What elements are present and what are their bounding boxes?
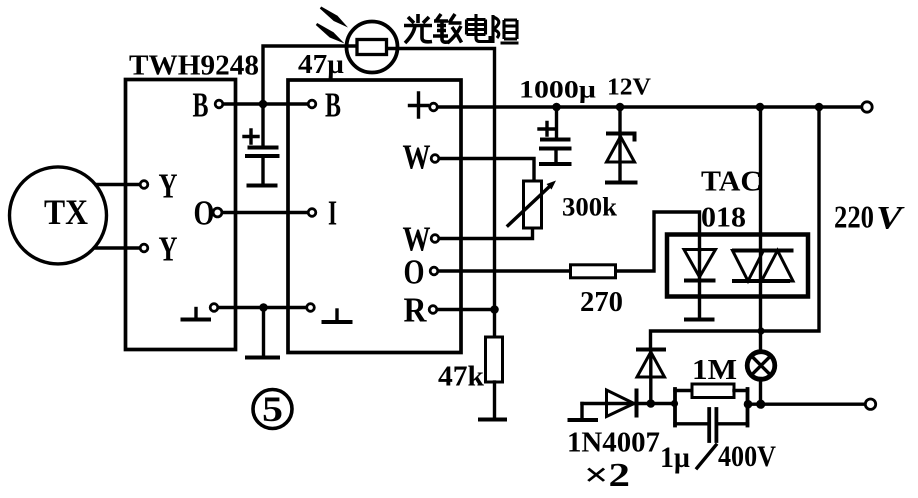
triac main vertical wire from rail to lamp [759,107,762,353]
svg-text:TX: TX [44,192,88,232]
svg-text:B: B [193,86,209,125]
svg-text:5: 5 [262,389,283,429]
node dot 220V drop [815,103,824,112]
svg-text:400V: 400V [718,440,776,473]
U1 pin B [215,100,223,108]
svg-text:1µ: 1µ [660,441,690,474]
wire TX bottom lead [96,246,140,249]
opto triac symbol [732,251,794,282]
wire photoresistor right lead down to R row [386,49,495,310]
bottom terminal circle [865,399,875,409]
capacitor C3 1u/400V [675,409,748,441]
ground lead below junction [262,308,265,355]
svg-text:018: 018 [701,203,746,234]
svg-text:Y: Y [159,167,178,206]
wire 220V drop to diode D3 top [651,107,820,348]
TX microphone circle [10,167,107,264]
svg-text:1000µ: 1000µ [519,77,596,104]
diode D3 1N4007 vertical [636,350,666,404]
plus sign [410,93,428,117]
U1 ground pin wire to U2 ground pin [218,306,307,309]
svg-text:270: 270 [580,287,623,318]
U2 pin I [308,209,316,217]
rail terminal circle [862,102,872,112]
svg-text:R: R [404,291,428,330]
junction blob at triac/lamp wire crossing [757,327,764,334]
U2 pin R wire to 47k node [437,308,494,311]
zener diode VD 12V [605,107,638,183]
U1 pin Y2 [140,244,148,252]
svg-text:300k: 300k [562,193,618,222]
resistor R3 1M [675,384,748,398]
svg-text:Y: Y [159,230,178,269]
node dot diodes join [647,399,656,408]
svg-text:47µ: 47µ [298,49,344,79]
AC line terminal bar [580,404,583,418]
svg-text:1M: 1M [692,354,737,386]
svg-text:47k: 47k [438,362,484,393]
resistor R1 270 [571,265,616,278]
circled figure number 5 [253,389,292,429]
resistor R2 47k [486,310,503,418]
lamp HL [747,352,775,405]
photoresistor RG body [357,40,387,55]
svg-text:12V: 12V [607,75,652,101]
svg-text:B: B [325,86,341,125]
U2 pin O wire through 270 to opto LED [438,212,700,271]
U2 pin plus with 12V rail wire [438,105,864,108]
svg-text:W: W [403,138,431,177]
U1 pin Y1 [140,181,148,189]
U1 GND symbol [194,309,197,318]
ground T below opto LED [684,318,715,322]
IC U1 TWH9248 box [126,80,236,350]
svg-text:220: 220 [834,199,874,235]
node dot 1000u [552,103,561,112]
ground junction dot between ICs [259,303,268,312]
U2 pin GND [307,304,315,312]
node dot triac rail [756,103,765,112]
U1 pin GND [210,304,218,312]
svg-text:I: I [328,194,337,233]
node dot at snubber left bar [671,400,678,407]
photoresistor RG circle [347,22,398,73]
svg-text:TAC: TAC [701,167,762,198]
node dot lamp bottom [756,400,765,409]
U2 pin B [308,100,316,108]
ground T symbol [245,356,280,360]
RC snubber left bar [673,389,677,426]
svg-text:O: O [404,253,425,292]
optocoupler U3 TAC018 box [667,235,808,297]
svg-text:V: V [876,201,906,237]
capacitor C1 47u [244,104,280,186]
svg-text:1N4007: 1N4007 [567,427,660,459]
U2 pin W2 wire from 300k bottom [439,228,533,239]
U1 pin O [213,208,222,217]
wire TX top lead [96,183,140,186]
capacitor C2 1000u [539,107,572,164]
node B junction dot [259,100,268,109]
opto LED [684,250,716,317]
light arrow 2 [316,23,345,44]
node dot snubber out [744,400,753,409]
ground T below 47k [478,418,507,422]
label 光敏电阻 [404,14,519,43]
U2 pin W1 wire to 300k [439,159,534,182]
U1 pin O wire to U2 pin I [222,211,308,214]
diode D4 1N4007 horizontal [582,389,675,418]
potentiometer RP 300k [508,181,556,229]
IC U2 box [288,80,461,353]
svg-text:×2: ×2 [584,457,630,494]
U2 GND symbol [335,310,338,320]
U1 pin B wire to U2 pin B [223,102,308,105]
node dot zener [616,103,625,112]
bottom wire to right terminal [748,403,867,406]
node R junction dot [490,305,499,314]
svg-text:TWH9248: TWH9248 [129,51,259,82]
light arrow 1 [320,7,348,28]
wire photoresistor left lead to B node [263,46,358,104]
svg-text:O: O [194,194,215,233]
RC snubber right bar [746,389,750,426]
